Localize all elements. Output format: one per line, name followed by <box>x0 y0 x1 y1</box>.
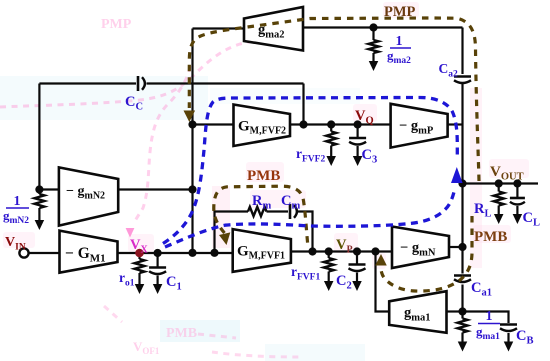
node gmN2 output <box>188 185 196 193</box>
PMB right arrowhead at Vp <box>375 254 387 266</box>
amplifier gmN <box>392 227 449 269</box>
PMP arrowhead at node A <box>184 111 196 123</box>
node FVF2 output/Cc <box>299 120 307 128</box>
blue arrowhead at Vout <box>451 167 463 183</box>
svg-text:PMP: PMP <box>384 4 416 20</box>
capacitor Ca2 <box>454 75 471 78</box>
resistor 1/gma2 <box>372 28 374 41</box>
wire gmP output <box>448 123 463 125</box>
capacitor CL <box>516 184 518 198</box>
amplifier gmP <box>391 104 448 148</box>
amplifier gmN2 <box>59 167 118 225</box>
wire gma1 output <box>447 310 463 312</box>
blue dashed path upper (via FVF2/gmP) <box>163 97 457 243</box>
wire center rail x192 <box>191 29 193 254</box>
amplifier GM,FVF2 <box>234 105 291 147</box>
node RL <box>495 179 503 187</box>
node CL <box>513 179 521 187</box>
svg-text:1: 1 <box>486 309 493 324</box>
wire right rail main <box>461 84 463 274</box>
input terminal Vin <box>19 248 28 257</box>
capacitor Cc <box>137 76 140 91</box>
resistor 1/gmN2 <box>38 190 40 195</box>
node gmN output <box>458 243 466 251</box>
amplifier gma1 <box>389 291 446 333</box>
amplifier GM,FVF1 <box>233 229 291 272</box>
PMB right brown dashed path <box>381 216 472 291</box>
wire right rail upper (Ca2 segment) <box>461 28 463 75</box>
wire FVF1 output to gmN <box>291 250 392 252</box>
capacitor Cm <box>289 204 292 219</box>
wire Vout <box>463 182 539 184</box>
wire FVF2 input <box>193 123 234 125</box>
ghost pink dashes bottom <box>104 306 302 357</box>
capacitor Ca1 <box>454 274 471 277</box>
wire to CB <box>463 312 509 324</box>
resistor rFVF2 <box>330 125 332 132</box>
resistor Rm <box>248 207 267 216</box>
node Vout <box>458 179 466 187</box>
wire gmN2 input <box>39 188 59 190</box>
node gma1 branch <box>371 247 379 255</box>
capacitor C3 <box>357 125 359 138</box>
svg-text:1: 1 <box>396 34 403 49</box>
resistor RL <box>498 184 500 192</box>
wire Cc left vertical <box>38 84 40 190</box>
node Vx rail <box>188 249 196 257</box>
wire gma2 output to right rail <box>303 26 463 28</box>
PMB middle brown dashed loop <box>214 186 308 247</box>
wire gmN2 output <box>118 188 192 190</box>
capacitor C2 <box>356 252 358 265</box>
node gmN2 input <box>35 185 43 193</box>
resistor ro1 <box>138 253 140 259</box>
node Cm return <box>308 247 316 255</box>
node gma1 output <box>458 307 466 315</box>
wire right rail lower <box>461 285 463 312</box>
node Rm tap <box>210 249 218 257</box>
node rFVF1 <box>325 247 333 255</box>
resistor rFVF1 <box>328 252 330 259</box>
wire GM1 output to FVF1 <box>118 252 233 254</box>
svg-text:PMB: PMB <box>166 326 197 341</box>
node C3 <box>354 120 362 128</box>
amplifier gma2 <box>244 7 303 51</box>
wire Cc down to node A <box>302 84 304 125</box>
node Vx <box>135 249 144 258</box>
PMP brown dashed path <box>189 18 479 181</box>
ghost pink dashed path (faded PMP overlay) <box>0 38 268 224</box>
capacitor CB <box>500 323 517 326</box>
svg-text:1: 1 <box>14 194 21 209</box>
node A (FVF2 input) <box>188 120 196 128</box>
PMB middle arrowhead at FVF1 input <box>219 232 230 245</box>
capacitor C1 <box>157 253 159 267</box>
node rFVF2 <box>327 120 335 128</box>
svg-text:PMB: PMB <box>247 168 280 184</box>
wire Vin to GM1 <box>29 252 60 254</box>
node 1/gma2 tap <box>369 23 377 31</box>
wire Rm Cm loop <box>215 212 249 253</box>
wire gmN output <box>449 246 463 248</box>
wire FVF2 output to gmP <box>290 123 391 125</box>
wire Cc horizontal right <box>147 82 304 84</box>
wire top-left to gma2 input <box>193 27 245 29</box>
blue dashed path lower (via FVF1/gmN) <box>165 190 455 247</box>
svg-text:PMB: PMB <box>474 229 507 245</box>
wire branch to gma1 <box>376 252 390 312</box>
wire Cc horizontal left <box>39 82 136 84</box>
ghost pink arrow at V_X <box>126 228 135 238</box>
svg-text:PMP: PMP <box>101 17 132 32</box>
resistor 1/gma1 <box>461 312 463 319</box>
node C2 <box>353 247 361 255</box>
amplifier GM1 <box>60 231 118 273</box>
node C1 <box>154 249 162 257</box>
